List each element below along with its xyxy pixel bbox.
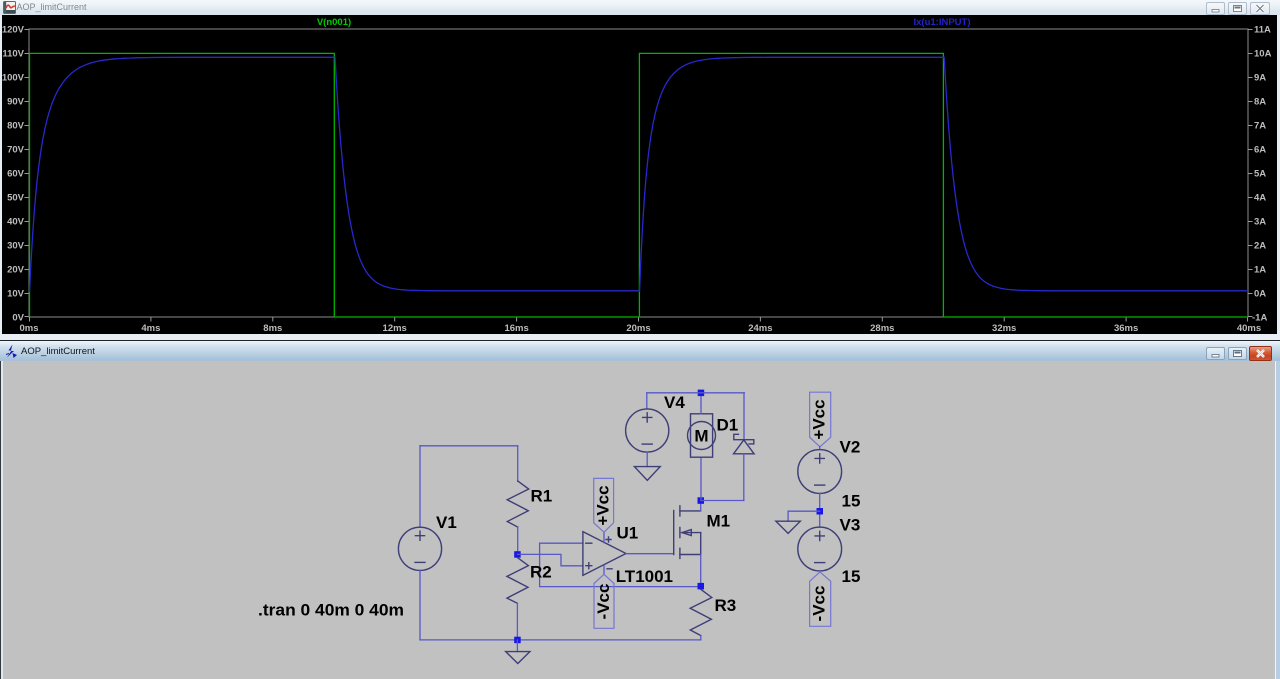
voltage source V4 xyxy=(626,409,669,452)
ground GND V2V3 xyxy=(776,521,800,533)
op-amp U1 xyxy=(583,532,626,576)
axis labels xyxy=(2,25,1272,335)
plot SVG placeholder xyxy=(0,0,1280,340)
svg-text:10V: 10V xyxy=(7,289,25,300)
wire divider to op-amp plus input xyxy=(517,554,583,565)
motor M load xyxy=(688,414,716,457)
svg-text:V1: V1 xyxy=(436,513,457,532)
svg-text:5A: 5A xyxy=(1254,169,1266,180)
node junction top rail xyxy=(698,390,705,397)
svg-text:70V: 70V xyxy=(7,145,25,156)
svg-text:90V: 90V xyxy=(7,97,25,108)
node junction R1-R2 divider xyxy=(514,551,521,558)
wire D1 bottom to drain node xyxy=(701,500,744,502)
wire M1 drain up xyxy=(700,501,702,511)
ground GND V4 xyxy=(634,467,660,481)
svg-text:+Vcc: +Vcc xyxy=(593,485,612,525)
svg-text:6A: 6A xyxy=(1254,145,1266,156)
node junction bottom rail R2/ground xyxy=(514,637,521,644)
net flag -Vcc V3 xyxy=(810,572,831,626)
wire ground spur xyxy=(788,511,820,521)
trace Ix(u1:INPUT) blue current xyxy=(30,57,1249,292)
svg-text:Ix(u1:INPUT): Ix(u1:INPUT) xyxy=(914,17,971,28)
wire top rail xyxy=(647,392,745,394)
wire M1 source down xyxy=(700,555,702,587)
svg-text:120V: 120V xyxy=(2,25,25,36)
net flag +Vcc V2 xyxy=(810,392,831,447)
plot background xyxy=(2,15,1277,334)
node junction M1 source / R3 / feedback xyxy=(698,583,705,590)
svg-text:-Vcc: -Vcc xyxy=(809,586,828,622)
wire ground stub xyxy=(516,640,518,652)
schematic window icon xyxy=(4,344,19,359)
svg-text:LT1001: LT1001 xyxy=(616,567,673,586)
wire R1 top lead xyxy=(517,446,519,481)
node junction V2/V3 xyxy=(817,508,824,515)
wire V4 top xyxy=(646,393,648,409)
svg-text:4A: 4A xyxy=(1254,193,1266,204)
close button xyxy=(1249,346,1272,361)
wire R1 bottom lead xyxy=(517,527,519,554)
svg-text:20V: 20V xyxy=(7,265,25,276)
restore button xyxy=(1228,347,1247,360)
svg-text:24ms: 24ms xyxy=(748,323,772,334)
svg-text:M: M xyxy=(694,427,708,446)
wire op-amp V+ stub xyxy=(603,532,605,542)
svg-text:50V: 50V xyxy=(7,193,25,204)
svg-text:-1A: -1A xyxy=(1252,313,1267,324)
minimize button xyxy=(1206,347,1225,360)
svg-text:8ms: 8ms xyxy=(263,323,282,334)
svg-text:1A: 1A xyxy=(1254,265,1266,276)
wire V1 bottom vertical xyxy=(419,570,421,640)
svg-text:12ms: 12ms xyxy=(383,323,407,334)
svg-text:15: 15 xyxy=(842,492,861,511)
wire motor bottom xyxy=(700,457,702,500)
svg-text:16ms: 16ms xyxy=(504,323,528,334)
wire R3 bottom lead xyxy=(700,636,702,640)
wire D1 top lead xyxy=(743,393,745,440)
wire V2 bottom to node xyxy=(819,493,821,527)
wire op-amp output to gate xyxy=(626,553,674,555)
svg-text:110V: 110V xyxy=(2,49,24,60)
net flag +Vcc op-amp xyxy=(594,478,614,532)
voltage source V2 xyxy=(798,450,842,494)
wire D1 bottom vertical xyxy=(743,454,745,501)
svg-text:3A: 3A xyxy=(1254,217,1266,228)
resistor R3 xyxy=(690,589,712,635)
schematic SVG placeholder xyxy=(0,361,1280,679)
waveform window icon xyxy=(3,1,16,14)
svg-text:R1: R1 xyxy=(531,487,553,506)
svg-text:V2: V2 xyxy=(840,438,861,457)
diode D1 schottky xyxy=(734,434,755,454)
svg-text:40V: 40V xyxy=(7,217,25,228)
wire motor top xyxy=(700,393,702,414)
wire op-amp minus input to feedback xyxy=(540,543,701,586)
svg-text:+Vcc: +Vcc xyxy=(809,399,828,439)
plot border box xyxy=(29,29,1248,317)
svg-text:11A: 11A xyxy=(1254,25,1271,36)
svg-text:V3: V3 xyxy=(840,516,861,535)
wire top rail V1 to R1 xyxy=(420,445,518,447)
svg-text:36ms: 36ms xyxy=(1114,323,1138,334)
svg-text:32ms: 32ms xyxy=(992,323,1016,334)
resistor R1 xyxy=(507,481,529,527)
close button xyxy=(1250,2,1270,15)
svg-text:2A: 2A xyxy=(1254,241,1266,252)
voltage source V3 xyxy=(798,527,842,571)
svg-text:0A: 0A xyxy=(1254,289,1266,300)
svg-text:40ms: 40ms xyxy=(1237,323,1261,334)
svg-text:0V: 0V xyxy=(12,313,24,324)
minimize button xyxy=(1206,2,1225,15)
svg-text:100V: 100V xyxy=(2,73,25,84)
svg-text:0ms: 0ms xyxy=(19,323,38,334)
svg-text:80V: 80V xyxy=(7,121,25,132)
wire V3 bottom to -Vcc xyxy=(819,571,821,572)
net flag -Vcc op-amp xyxy=(594,574,614,628)
svg-text:.tran 0 40m 0 40m: .tran 0 40m 0 40m xyxy=(258,601,404,620)
wire V4 bottom xyxy=(646,452,648,467)
ground GND0 xyxy=(506,652,530,664)
trace V(n001) green square wave xyxy=(30,53,1249,317)
wire V1 top vertical xyxy=(419,446,421,527)
svg-text:60V: 60V xyxy=(7,169,25,180)
svg-text:28ms: 28ms xyxy=(870,323,894,334)
wire bottom rail xyxy=(420,639,701,641)
svg-text:V4: V4 xyxy=(664,393,685,412)
node junction M1 drain / motor / D1 xyxy=(698,497,705,504)
svg-text:30V: 30V xyxy=(7,241,25,252)
wire +Vcc to V2 xyxy=(819,447,821,450)
resistor R2 xyxy=(507,558,529,604)
svg-text:R3: R3 xyxy=(715,596,737,615)
svg-text:10A: 10A xyxy=(1254,49,1272,60)
restore button xyxy=(1228,2,1247,15)
voltage source V1 xyxy=(398,527,441,570)
transistor M1 nmos xyxy=(674,506,701,559)
svg-text:D1: D1 xyxy=(717,416,739,435)
svg-text:V(n001): V(n001) xyxy=(317,17,351,28)
svg-text:R2: R2 xyxy=(530,563,552,582)
wire R2 bottom lead xyxy=(516,603,518,640)
axis ticks xyxy=(25,30,1253,322)
svg-text:U1: U1 xyxy=(617,524,639,543)
svg-text:20ms: 20ms xyxy=(626,323,650,334)
svg-text:M1: M1 xyxy=(707,512,731,531)
svg-text:8A: 8A xyxy=(1254,97,1266,108)
svg-text:-Vcc: -Vcc xyxy=(594,584,613,620)
svg-text:15: 15 xyxy=(842,567,861,586)
svg-text:4ms: 4ms xyxy=(141,323,160,334)
svg-text:9A: 9A xyxy=(1254,73,1266,84)
svg-text:7A: 7A xyxy=(1254,121,1266,132)
wire op-amp V- stub xyxy=(603,565,605,574)
